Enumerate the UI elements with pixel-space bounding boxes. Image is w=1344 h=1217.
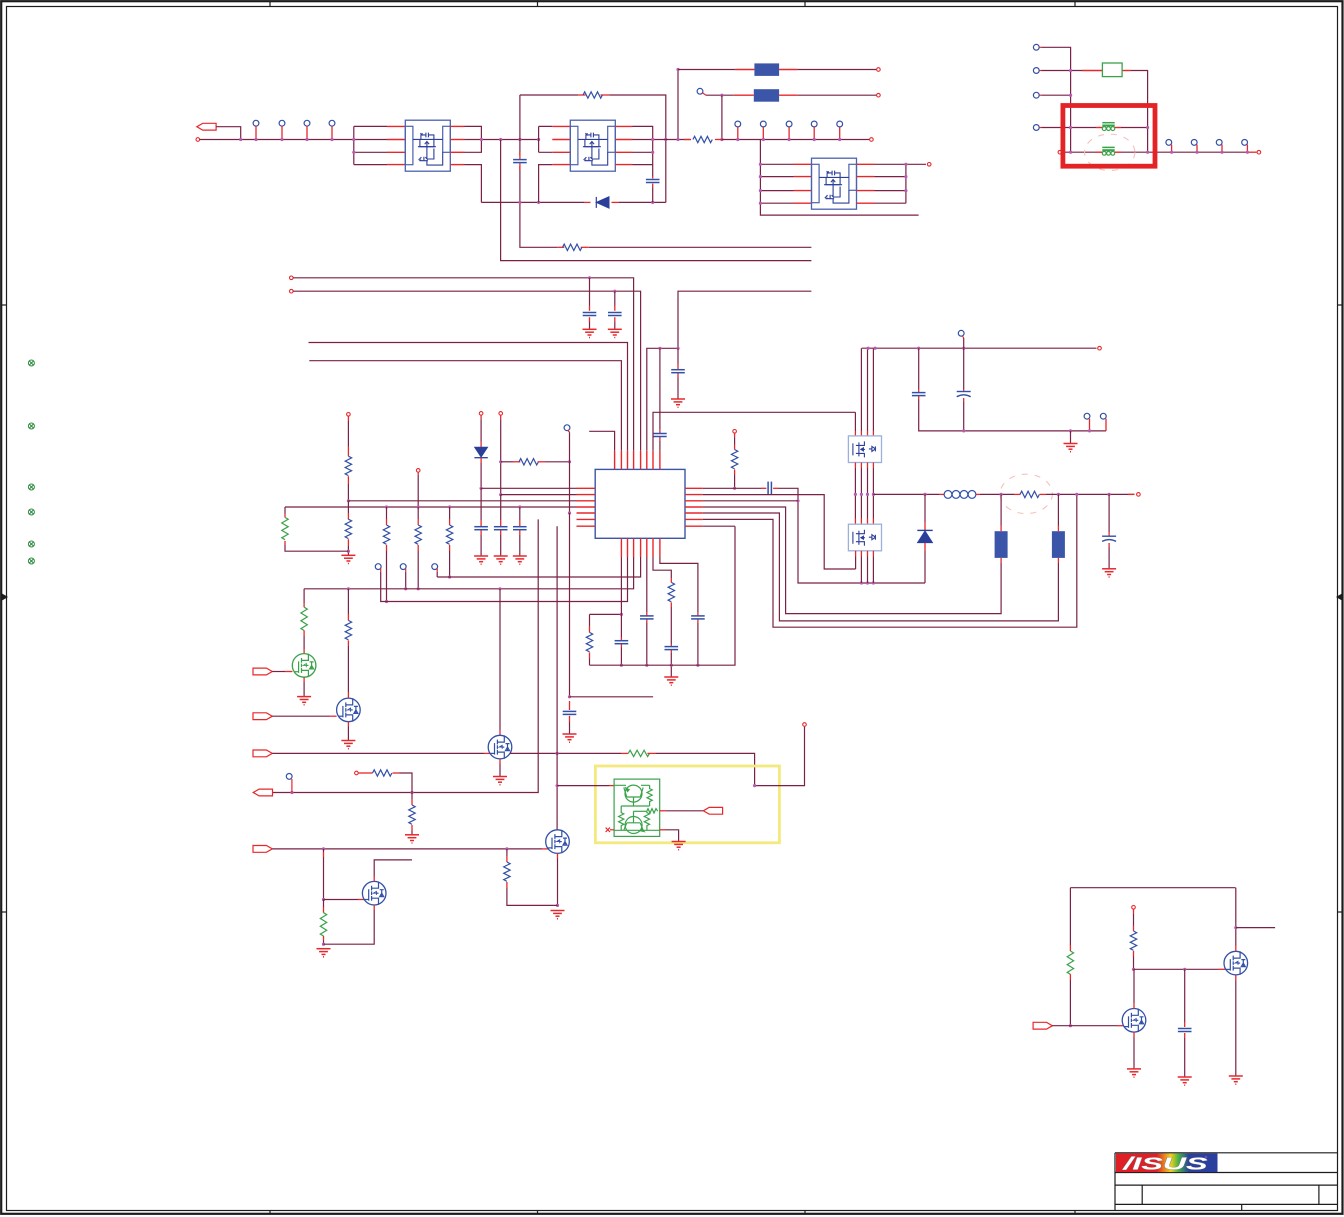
pin lead: [1249, 151, 1257, 153]
input arrow A1: [253, 668, 272, 675]
wire: [659, 441, 661, 451]
junction: [759, 163, 762, 166]
wire IC pin6/pin8 tie net: [647, 291, 812, 451]
pink dashed highlight ellipse: [1085, 134, 1135, 170]
test point: [786, 121, 792, 127]
wire M2 right pins tie: [633, 126, 691, 202]
wire: [867, 348, 869, 431]
test point TP3: [304, 120, 310, 126]
resistor R7 horizontal at 461.8: [501, 461, 513, 463]
pin lead: [697, 612, 699, 616]
wire A2 to Q1 gate: [272, 715, 330, 717]
test point TPD: [1033, 125, 1039, 131]
junction: [917, 347, 920, 350]
wire: [417, 551, 419, 589]
wire switch bundle verticals: [854, 412, 856, 431]
pin lead: [854, 431, 856, 436]
pin lead: [924, 522, 926, 530]
pin lead: [1069, 974, 1071, 980]
junction: [651, 151, 654, 154]
resistor RG1 (green): [282, 517, 288, 539]
wire gate net continues to x754.6 loop: [510, 752, 621, 754]
test points TPi TPj: [1084, 413, 1090, 419]
pin lead: [779, 94, 798, 96]
wire output rail: [980, 493, 1014, 495]
frame zone ticks bottom: [270, 1211, 1075, 1214]
capacitor C1 on x519.9: [519, 152, 521, 159]
pin lead: [411, 825, 413, 831]
terminal top: [803, 723, 807, 727]
junction: [480, 487, 483, 490]
pin lead: [306, 126, 308, 139]
pin lead: [612, 201, 620, 203]
wire A7 to Q6 gate: [1052, 1025, 1117, 1027]
wire A1 to green fet gate: [272, 671, 285, 673]
wire: [480, 419, 482, 441]
junction: [796, 499, 799, 502]
green internal top rail: [614, 784, 650, 786]
wire Q5 source to ground: [1235, 975, 1237, 981]
pin lead: [614, 306, 616, 311]
input arrow A3: [253, 750, 272, 757]
junction: [962, 429, 965, 432]
ground G6: [494, 556, 508, 564]
pin lead: [285, 671, 292, 673]
wire into green circuit: [557, 785, 609, 787]
connector arrow J-IN: [197, 123, 216, 130]
junction: [556, 752, 559, 755]
wire row7 to bottom bus: [703, 525, 735, 527]
test point TPw3: [432, 564, 438, 570]
test point: [811, 121, 817, 127]
fuse F1 (filled box): [754, 63, 779, 76]
junction: [498, 587, 501, 590]
wire Q3 source down: [557, 853, 559, 858]
test point: [1191, 140, 1197, 146]
pin lead: [976, 493, 980, 495]
wire: [507, 888, 558, 905]
pin lead: [1000, 558, 1002, 563]
pin lead: [1133, 951, 1135, 957]
frame zone ticks left: [1, 305, 6, 912]
pin lead: [652, 184, 654, 188]
test point TPw2: [400, 564, 406, 570]
ground drop on 430.9: [1069, 429, 1072, 432]
junction: [696, 664, 699, 667]
resistor R-bottom leads: [558, 246, 565, 248]
resistor R12 column x348: [347, 589, 349, 614]
junction: [568, 695, 571, 698]
junction: [613, 290, 616, 293]
wire: [569, 722, 571, 734]
wire M2 left pin bus: [539, 126, 553, 202]
wire: [963, 402, 965, 431]
terminal output row end: [1257, 150, 1261, 154]
junction: [759, 202, 762, 205]
wire main input rail: [200, 139, 387, 141]
wire TPD row / bead1 row: [1041, 127, 1147, 129]
terminal top x734.6: [733, 430, 737, 434]
wire: [284, 507, 286, 514]
junction: [347, 499, 350, 502]
wire TPC row: [1041, 94, 1070, 96]
pin lead: [1057, 526, 1059, 532]
junction: [1108, 493, 1111, 496]
pin lead: [519, 520, 521, 526]
pin lead: [513, 461, 520, 463]
pin lead: [347, 539, 349, 546]
capacitor C4 with ground: [614, 291, 616, 305]
ground G4: [341, 555, 355, 563]
pin lead: [417, 545, 419, 551]
resistor R-in: [693, 136, 712, 142]
wire IC row1: [481, 487, 576, 489]
capacitor C3 with ground: [589, 278, 591, 306]
mosfet Q3: [546, 830, 570, 854]
fuse F3 (green box): [1102, 63, 1122, 77]
terminal rail end: [870, 138, 874, 142]
junction: [1069, 69, 1072, 72]
wire: [860, 348, 862, 431]
wire A5 to Q3 gate: [272, 848, 542, 850]
pin lead: [918, 389, 920, 392]
pin lead: [1069, 945, 1071, 951]
mosfet Q1: [337, 698, 361, 722]
pin lead: [1096, 127, 1103, 129]
wire: [670, 653, 672, 677]
dual mosfet module U1: [405, 120, 450, 171]
wire: [347, 546, 349, 555]
wire: [303, 682, 305, 696]
junction: [448, 575, 451, 578]
polarized capacitor C18 output: [1108, 494, 1110, 532]
junction: [1088, 429, 1091, 432]
junction: [854, 493, 857, 496]
junction: [322, 847, 325, 850]
pin lead: [303, 649, 305, 654]
M2 left pin leads: [552, 126, 570, 164]
test point TP4: [329, 120, 335, 126]
wire: [734, 437, 736, 444]
pin lead: [411, 799, 413, 805]
wire rail3 to IC top pin3: [309, 343, 628, 451]
frame zone ticks top: [270, 1, 1075, 6]
wire: [1184, 1038, 1186, 1077]
green transistor pair box: [614, 779, 660, 836]
pin lead: [480, 530, 482, 535]
ground G21: [1178, 1077, 1192, 1085]
wire: [589, 322, 591, 329]
ferrite bead FB2: [1102, 147, 1114, 155]
wire: [614, 322, 616, 329]
pin lead: [761, 487, 766, 489]
test point: [1100, 413, 1106, 419]
terminal 348 rail end: [1098, 346, 1102, 350]
junction: [759, 175, 762, 178]
resistor R2: [345, 456, 351, 475]
test point: [735, 121, 741, 127]
junction: [417, 587, 420, 590]
pin lead: [1082, 70, 1102, 72]
pin lead: [386, 545, 388, 551]
resistor RT1: [647, 785, 652, 806]
terminal row5 left: [1058, 150, 1062, 154]
wire IC bottom pin5 chain with capacitor C12: [646, 557, 648, 612]
ground G15: [405, 835, 419, 843]
pink dashed ellipse over sense resistor: [1000, 474, 1052, 513]
resistor R5: [383, 525, 389, 544]
bundle between modules: [855, 463, 873, 469]
fuse F2 (filled box): [754, 89, 779, 102]
terminal V1 x348: [347, 413, 351, 417]
junction: [866, 493, 869, 496]
wire IC row4 with green resistor branch: [285, 506, 577, 508]
pin lead: [677, 364, 679, 369]
green mid rail: [621, 805, 649, 807]
diode D2 (pointing down): [474, 447, 487, 457]
wire: [323, 857, 325, 900]
wire: [449, 507, 451, 519]
pin lead: [918, 396, 920, 400]
terminal M3 out: [927, 163, 931, 167]
wire M3 right bus: [875, 164, 927, 203]
pin lead: [620, 644, 622, 648]
pin lead: [601, 94, 610, 96]
pin lead: [500, 530, 502, 535]
terminal x500.7 column: [499, 412, 503, 416]
resistor column x449.6: [448, 505, 451, 508]
ground G7: [513, 556, 527, 564]
test points TP6-TP10: [735, 121, 843, 141]
IC right pin leads: [685, 488, 703, 526]
wire: [655, 753, 754, 785]
pin lead: [589, 306, 591, 311]
pin lead: [1122, 70, 1131, 72]
wire: [400, 773, 413, 793]
pin lead: [1117, 1025, 1125, 1027]
pin lead: [347, 513, 349, 519]
pin lead: [284, 514, 286, 518]
junction: [518, 201, 521, 204]
junction: [1146, 126, 1149, 129]
wire top feed 348 rail: [862, 347, 1097, 349]
wire branch x500.6 down to long rail: [501, 140, 812, 261]
resistor column x418 riser: [417, 472, 419, 475]
pin lead: [1218, 968, 1226, 970]
test point TPg: [286, 774, 292, 780]
wire: [779, 488, 926, 583]
pin lead: [589, 652, 591, 658]
pin lead: [646, 612, 648, 616]
wire: [855, 468, 873, 519]
wire IC row7 drop x557.1: [556, 526, 558, 830]
pin lead: [589, 317, 591, 322]
pin lead: [963, 398, 965, 402]
inductor L1: [944, 491, 976, 499]
pin lead: [860, 431, 862, 436]
wire M5 gate drop to row2 loop: [855, 557, 857, 570]
junction: [620, 664, 623, 667]
terminal diode column top: [479, 412, 483, 416]
wire: [1070, 431, 1072, 443]
wire: [411, 831, 413, 835]
pin lead: [323, 907, 325, 913]
junction: [537, 201, 540, 204]
pin lead: [1000, 526, 1002, 532]
pin lead: [347, 640, 349, 646]
test point: [760, 121, 766, 127]
wire: [500, 419, 502, 494]
test point: [1242, 140, 1248, 146]
wire IC bottom pin6 chain: [653, 557, 671, 578]
pin lead: [621, 752, 628, 754]
transistor T1 (green pnp): [625, 785, 642, 802]
pin lead: [480, 458, 482, 463]
ground G10: [1064, 444, 1078, 452]
junction: [305, 138, 308, 141]
pin lead: [677, 373, 679, 378]
junction: [753, 784, 756, 787]
junction: [904, 175, 907, 178]
wire Q6 drain riser: [1133, 1003, 1135, 1009]
wire: [480, 463, 482, 488]
resistor RG2 (green): [301, 607, 307, 630]
capacitor C9 column x519.8: [518, 505, 521, 508]
junction: [1146, 151, 1149, 154]
frame zone arrow right: [1336, 594, 1342, 601]
pin lead: [1114, 151, 1121, 153]
wire Q5 drain riser: [1235, 946, 1237, 952]
wire stub right at 696.8: [570, 696, 654, 698]
pin lead: [1105, 419, 1107, 431]
pin lead: [779, 69, 798, 71]
wire row5 return loop: [703, 513, 1059, 621]
wire IC pin8 riser with capacitor C5: [659, 348, 661, 429]
wire: [1133, 914, 1135, 926]
junction: [518, 138, 521, 141]
junction: [556, 904, 559, 907]
ground G16: [551, 911, 565, 919]
pin lead: [1128, 493, 1135, 495]
wire gate branch x323.5: [323, 849, 325, 852]
M1 left pin leads: [387, 126, 405, 164]
pin lead: [303, 630, 305, 636]
junction: [505, 847, 508, 850]
pin lead: [519, 530, 521, 535]
wire Q6 source to ground: [1133, 1032, 1135, 1037]
junction: [499, 138, 502, 141]
wire: [1133, 969, 1135, 1003]
wire top resistor rail: [520, 95, 666, 202]
pin lead: [867, 431, 869, 436]
green bottom rail: [614, 829, 660, 831]
terminal F1 out: [877, 68, 881, 72]
pin lead: [670, 650, 672, 653]
sense resistor R11: [1014, 493, 1020, 495]
ferrite bead FB1: [1102, 123, 1114, 131]
ground G1: [583, 329, 597, 337]
pin lead: [330, 715, 336, 717]
pin lead: [697, 619, 699, 623]
junction: [499, 460, 502, 463]
resistor R2 column leads: [347, 416, 349, 421]
ground G12: [297, 697, 311, 705]
resistor RT3: [644, 811, 649, 830]
junction: [1069, 151, 1072, 154]
resistor RG3 (green horizontal): [628, 750, 649, 756]
resistor R13 horizontal: [373, 770, 392, 776]
capacitor C6 to ground on x678: [677, 348, 679, 364]
pin lead: [281, 126, 283, 139]
pin lead: [347, 476, 349, 484]
wire: [666, 810, 704, 812]
junction: [1069, 1024, 1072, 1027]
pin lead: [331, 126, 333, 139]
wire: [670, 607, 672, 644]
resistor R-top leads: [578, 94, 585, 96]
wire: [665, 830, 679, 841]
wire Q4 drain stub: [373, 877, 375, 882]
input arrow A5: [253, 846, 272, 853]
resistor R16: [1130, 931, 1136, 950]
pin lead: [1089, 419, 1091, 431]
title block frame: [1115, 1153, 1338, 1211]
wire IC pin7 to VRM feed: [653, 412, 855, 451]
wire row6 return loop: [703, 494, 1077, 627]
junction: [676, 347, 679, 350]
wire: [872, 348, 874, 431]
resistor R-bottom: [563, 244, 582, 250]
wire arrow tail to main rail: [216, 127, 241, 140]
capacitor C19: [1184, 969, 1186, 1022]
resistor R9: [668, 582, 674, 601]
test point TP5: [697, 88, 703, 94]
wire bottom bus: [590, 526, 736, 665]
junction: [417, 505, 420, 508]
junction: [620, 613, 623, 616]
ground G17: [317, 949, 331, 957]
test point TP1: [253, 120, 259, 126]
junction arrow tail: [239, 138, 242, 141]
test point: [1166, 140, 1172, 146]
output arrow A4: [253, 789, 272, 796]
capacitor C13: [670, 644, 672, 646]
junction: [874, 347, 877, 350]
wire A riser and row: [437, 557, 640, 577]
pin lead: [735, 69, 754, 71]
junction: [962, 347, 965, 350]
wire TPA to bus: [1041, 47, 1070, 152]
junction: [347, 587, 350, 590]
pin lead: [963, 389, 965, 392]
wire M1 left pin bus: [354, 126, 387, 164]
terminal mid column: [1132, 906, 1136, 910]
junction: [330, 138, 333, 141]
wire vertical feed x678: [677, 70, 679, 140]
test point TP2: [279, 120, 285, 126]
resistor R3 below: [347, 501, 349, 513]
pin lead: [386, 519, 388, 525]
resistor RG5 (green) left leg: [1069, 888, 1071, 945]
pin lead: [715, 139, 722, 141]
junction: [1069, 126, 1072, 129]
junction: [280, 138, 283, 141]
pin lead: [255, 126, 257, 139]
pin lead: [323, 936, 325, 941]
resistor R15 column x506.9: [506, 849, 508, 856]
transistor T2 (green pnp): [625, 817, 642, 834]
pin lead: [569, 716, 571, 722]
